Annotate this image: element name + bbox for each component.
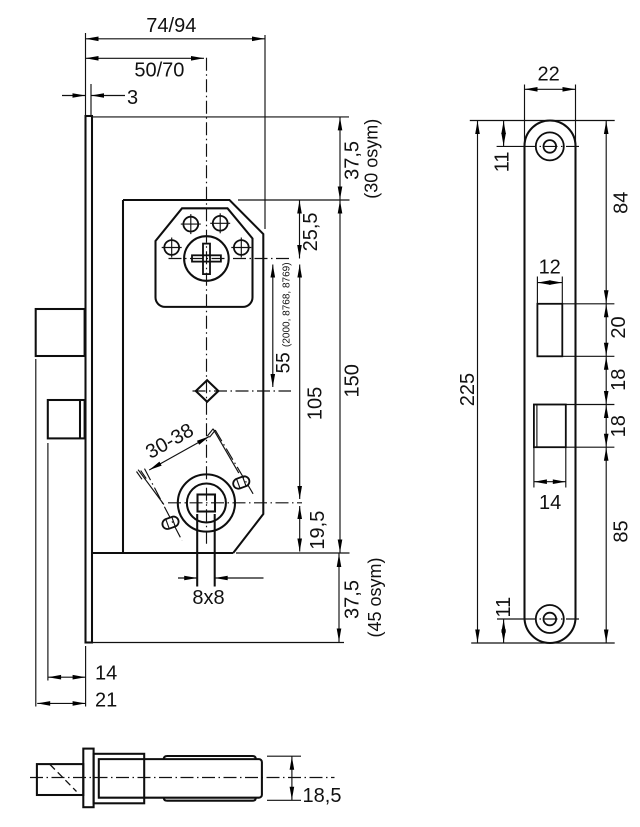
cover plate top [164,756,256,759]
upper cutout (12x20) [537,304,562,357]
svg-text:225: 225 [457,373,479,406]
bottom screw centerline [497,618,523,620]
lower cutout reference lines [534,404,615,406]
top outer line (case top extension) [92,116,349,118]
svg-text:19,5: 19,5 [307,511,329,550]
spindle hub inner circle [187,484,226,523]
lock case outline [123,200,263,553]
lower cutout inner line [536,405,538,448]
dim 14 [534,479,566,514]
svg-text:74/94: 74/94 [146,15,196,37]
extension line below faceplate for 14/21 [85,646,87,707]
hub horizontal centerline [168,502,302,504]
top screw [536,132,564,160]
dim 18 lower [604,405,630,448]
bottom screw [536,605,564,633]
dim 30-38 [137,419,216,479]
faceplate strip (front edge, 3mm) [86,116,93,643]
svg-text:3: 3 [127,87,138,109]
screw S1 (top-left) [181,214,201,234]
svg-text:11: 11 [493,597,515,618]
oblong slot upper-right [232,474,252,491]
slot LL extension line [138,470,164,505]
slot UR extension line [213,429,239,473]
svg-text:(30 osym): (30 osym) [361,119,381,199]
dim 50/70 [86,56,205,81]
spindle shaft lines below hub [196,514,198,587]
slot UR centerline [215,430,253,494]
svg-text:12: 12 [539,257,561,279]
follower diamond hole [196,380,219,402]
top screw centerline [497,145,523,147]
svg-text:22: 22 [537,63,559,85]
case body [99,759,262,798]
dim 3 [62,84,138,116]
svg-text:21: 21 [95,690,117,712]
dim 25,5 [297,200,322,259]
svg-text:18: 18 [608,369,630,391]
dim 37,5 (30 osym) [338,117,382,200]
screw S4 (right) [231,238,251,258]
dim 37,5 (45 osym) [337,554,385,643]
svg-text:50/70: 50/70 [134,59,184,81]
case left edge [122,200,124,553]
diamond horizontal centerline [193,390,292,392]
upper cutout reference lines [537,303,614,305]
cylinder escutcheon plate [156,208,253,307]
top reference line [470,120,615,122]
square spindle hole 8x8 [198,495,216,512]
dim 18 upper [604,356,630,404]
dim 74/94 [86,15,266,229]
latch bolt (protruding left) [36,309,85,356]
screw S3 (left) [162,238,182,258]
dim 20 [604,304,630,357]
svg-text:85: 85 [611,520,633,542]
mounting bracket [94,754,145,804]
svg-text:25,5: 25,5 [300,212,322,251]
lower cutout extension lines down [533,447,535,487]
slot LL centerline [145,469,183,541]
centerline [30,777,335,779]
latch bevel dashed line [50,765,77,792]
deadbolt (protruding left) [48,400,85,438]
case bottom edge [91,552,233,554]
faceplate end [83,749,93,808]
dim 22 [525,63,576,91]
dim 12 [537,257,562,285]
svg-text:150: 150 [342,364,364,397]
svg-text:18: 18 [608,415,630,437]
dim 225 [457,121,480,644]
svg-text:11: 11 [492,152,514,173]
svg-text:37,5: 37,5 [341,141,363,180]
svg-text:14: 14 [95,663,117,685]
spindle hub outer circle [178,474,235,531]
vertical centerline [206,58,208,545]
cover plate bottom [164,798,256,801]
dim 55 (2000, 8768, 8769) [271,262,295,387]
extension line for 21 (latch face) [35,359,37,707]
svg-text:105: 105 [305,387,327,420]
svg-text:(45 osym): (45 osym) [365,557,385,637]
dim 11 top [492,121,514,173]
dim 14 (deadbolt throw) [48,663,117,685]
plate edge extensions up [524,85,526,147]
case top extension line [238,199,350,201]
dim 85 [604,447,633,643]
ticks at dimension ends [137,472,143,480]
cylinder cross vertical bar [203,244,210,275]
dim 19,5 [297,506,328,552]
upper cutout extension lines up [536,277,538,304]
faceplate stadium outline [525,121,576,644]
cylinder circle [184,236,229,281]
dim 8x8 [178,576,264,609]
extension line for 14 (deadbolt face) [47,443,49,681]
svg-text:14: 14 [539,492,561,514]
dim 11 bottom [493,597,515,643]
deadbolt face line [79,400,81,438]
latch bolt end [37,764,83,795]
dim 21 (latch throw) [37,690,117,712]
screw S2 (top-right) [210,213,230,233]
cylinder horizontal centerline [169,258,291,260]
dim 150 [338,200,364,553]
cylinder cross horizontal bar [192,255,221,261]
svg-text:37,5: 37,5 [342,580,364,619]
dim 105 [297,265,326,500]
bottom reference line [471,642,615,644]
svg-text:8x8: 8x8 [192,587,224,609]
svg-text:84: 84 [610,192,632,214]
dim 18,5 [267,756,341,807]
svg-text:20: 20 [608,316,630,338]
case bottom extension line [236,552,350,554]
svg-text:18,5: 18,5 [303,785,342,807]
dim 84 [604,121,632,304]
oblong slot lower-left [161,515,181,532]
bottom outer line [92,642,344,644]
lower cutout (14x18) [534,405,566,448]
